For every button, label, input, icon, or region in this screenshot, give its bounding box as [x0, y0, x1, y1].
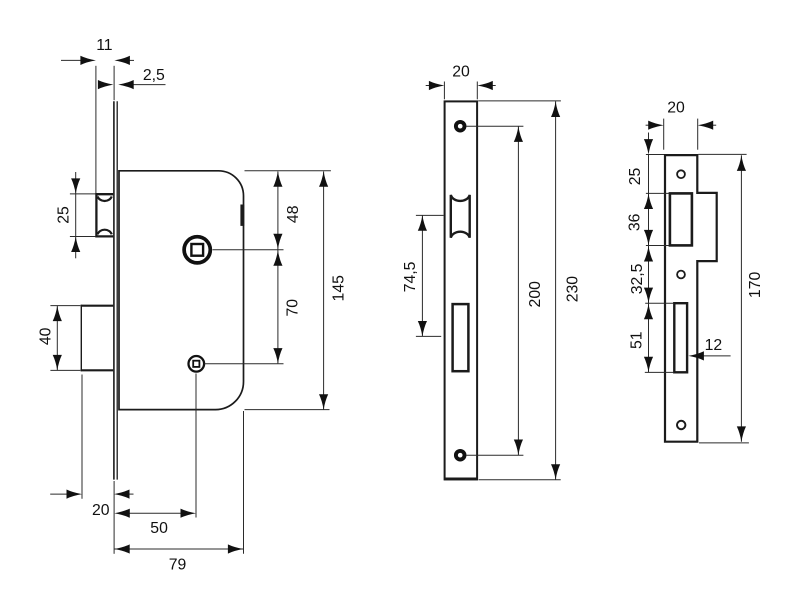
svg-text:79: 79 [169, 557, 187, 574]
svg-text:20: 20 [452, 64, 470, 81]
svg-text:70: 70 [285, 299, 302, 317]
svg-text:200: 200 [527, 281, 544, 308]
svg-text:36: 36 [626, 213, 643, 231]
svg-text:25: 25 [627, 168, 644, 186]
svg-text:20: 20 [92, 502, 110, 519]
svg-text:40: 40 [38, 327, 55, 345]
svg-text:11: 11 [96, 37, 113, 54]
svg-text:12: 12 [705, 337, 723, 354]
svg-text:50: 50 [150, 520, 168, 537]
svg-text:32,5: 32,5 [629, 263, 646, 294]
svg-text:145: 145 [330, 275, 347, 302]
svg-text:170: 170 [747, 272, 764, 299]
svg-text:25: 25 [56, 206, 73, 224]
svg-text:48: 48 [285, 205, 302, 223]
svg-text:51: 51 [629, 331, 646, 349]
svg-text:2,5: 2,5 [143, 67, 165, 84]
svg-text:230: 230 [565, 276, 582, 303]
svg-text:74,5: 74,5 [402, 261, 419, 292]
svg-text:20: 20 [667, 100, 685, 117]
